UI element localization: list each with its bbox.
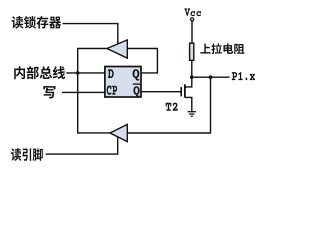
label Vcc: cc subscript [191, 11, 202, 16]
pin label Q-bar [133, 86, 139, 97]
latch U1: D latch box [105, 67, 141, 98]
op-amp/buffer: upper tri-state read-latch buffer [107, 40, 127, 58]
wire: upper buffer output to internal bus [78, 49, 107, 73]
wire: internal bus to D input [66, 72, 105, 74]
wire: internal bus down to lower buffer output [78, 73, 110, 133]
transistor T2: channel bar [184, 84, 186, 97]
wire: Q-bar output to T2 gate [141, 91, 181, 93]
label P1.x [232, 72, 255, 80]
wire: write to CP input [62, 91, 105, 93]
wire: resistor to drain node [191, 61, 193, 77]
label: 读引脚 (read pin) [11, 148, 43, 161]
resistor: pull-up resistor [190, 43, 194, 60]
label Vcc: V [184, 8, 190, 15]
label: 写 (write) [43, 86, 55, 98]
label T2 [166, 103, 178, 111]
node: P1.x read junction [209, 75, 213, 79]
wire: read-pin control to lower buffer enable [46, 137, 118, 154]
label: 内部总线 (internal bus) [14, 66, 65, 79]
wire: read-latch control to upper buffer enable [63, 24, 118, 45]
op-amp/buffer: lower tri-state read-pin buffer [110, 124, 127, 141]
transistor T2: source connection [185, 97, 192, 111]
wire: pin line to P1.x [192, 76, 230, 78]
node: internal bus junction [76, 71, 80, 75]
ground symbol [188, 112, 196, 117]
wire: Vcc to resistor [191, 22, 193, 43]
label: 上拉电阻 (pull-up resistor) [200, 43, 244, 54]
wire: lower buffer input from pin node [127, 77, 210, 133]
pin label Q [133, 69, 140, 80]
label: 读锁存器 (read latch) [12, 16, 62, 29]
pin label CP [107, 86, 117, 95]
pin label D [108, 69, 114, 78]
transistor T2: gate bar [180, 87, 182, 96]
node: drain/resistor junction [190, 75, 194, 79]
transistor T2: drain connection [185, 77, 192, 87]
overline of Q-bar [133, 83, 140, 85]
wire: upper buffer input from Q [127, 49, 157, 73]
Vcc terminal circle [191, 18, 194, 21]
